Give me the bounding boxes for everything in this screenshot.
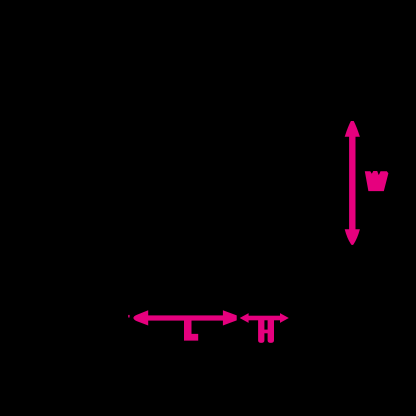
- arrowhead left: [133, 310, 148, 325]
- wire: horizontal shaft: [145, 315, 223, 320]
- wire: horizontal shaft: [247, 316, 281, 321]
- arrowhead left: [240, 313, 249, 323]
- H crossbar: [263, 330, 269, 334]
- label L: [184, 320, 198, 341]
- dimension arrow H (horizontal double-headed, short): [240, 313, 289, 323]
- label H: [258, 319, 274, 343]
- dimension arrow L (horizontal double-headed, long): [128, 310, 237, 325]
- arrowhead left tip speck: [128, 315, 129, 318]
- H right stem: [268, 319, 274, 343]
- dimension arrow W (vertical double-headed): [345, 121, 360, 245]
- arrowhead bottom: [345, 229, 360, 245]
- wire: vertical shaft: [349, 133, 355, 233]
- label W: [365, 171, 389, 191]
- H left stem: [258, 319, 264, 343]
- arrowhead right: [223, 310, 237, 325]
- arrowhead right: [280, 313, 289, 323]
- arrowhead top: [345, 121, 360, 137]
